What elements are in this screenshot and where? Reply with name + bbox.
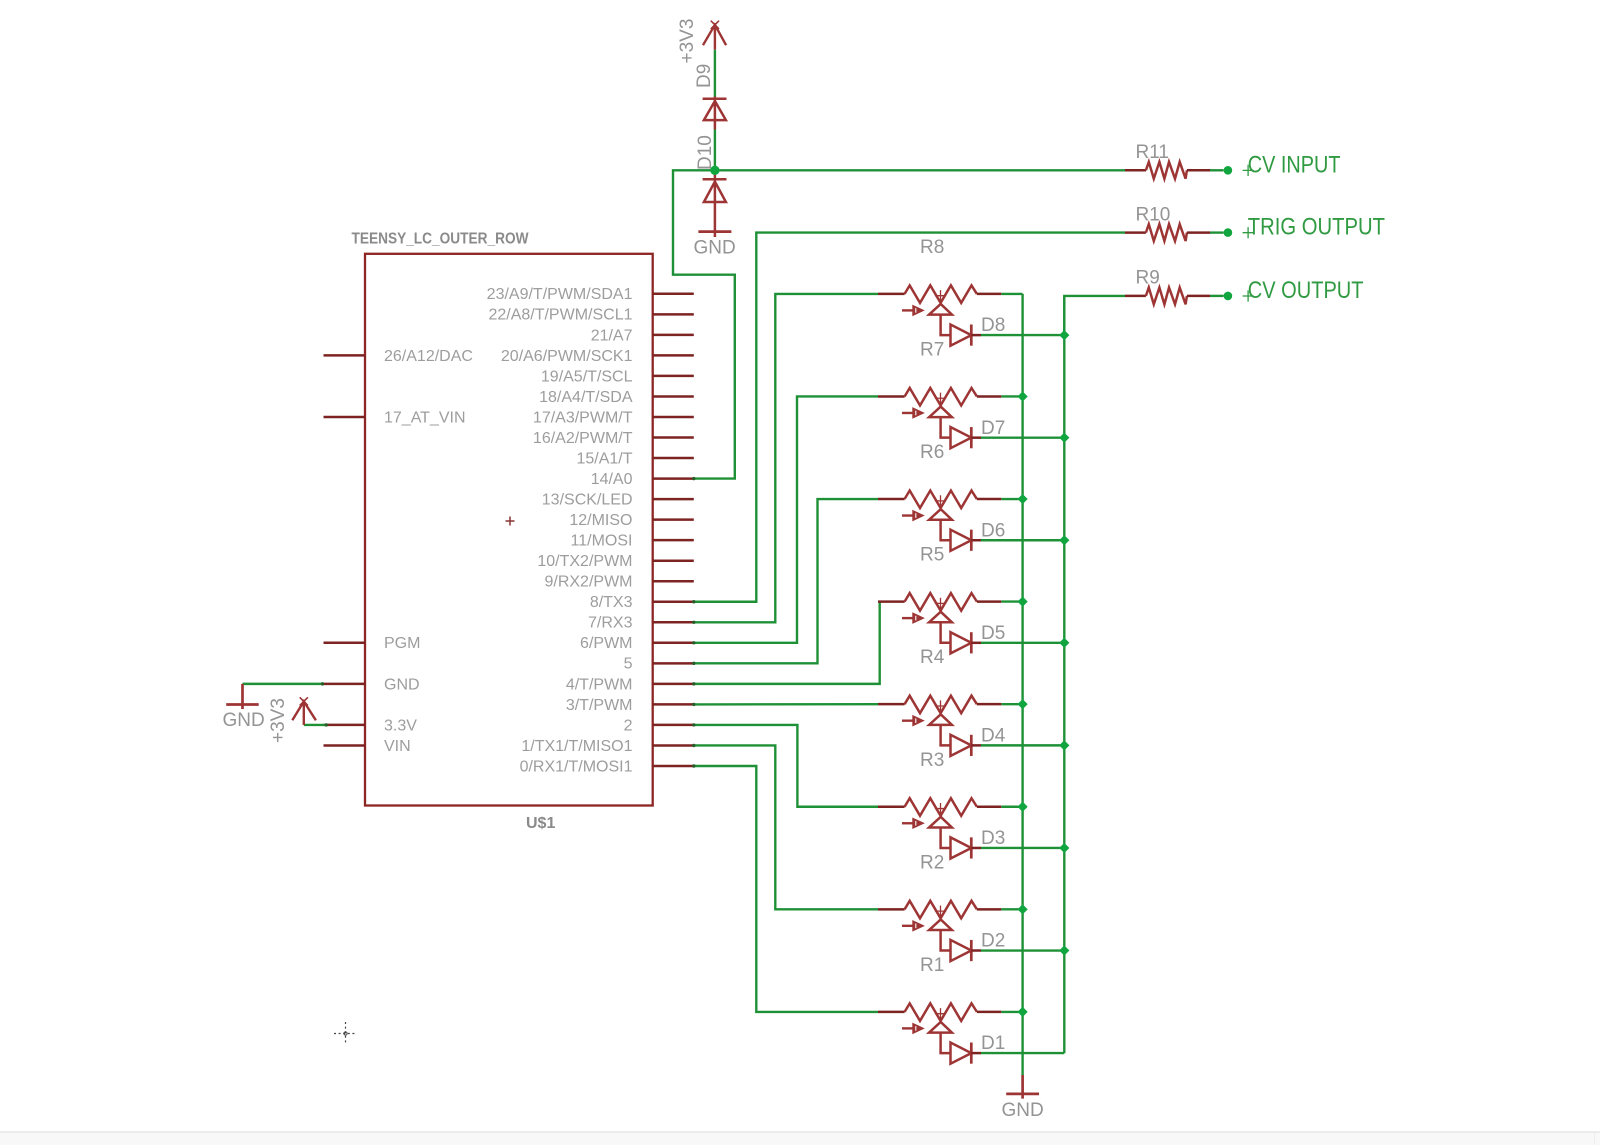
svg-text:18/A4/T/SDA: 18/A4/T/SDA	[539, 389, 633, 406]
wire pot R7 to right bus	[1001, 395, 1022, 397]
svg-text:D7: D7	[981, 418, 1005, 439]
wire diode D8 to output bus	[981, 334, 1064, 336]
svg-text:D8: D8	[981, 315, 1005, 336]
pin label 2	[624, 717, 633, 734]
diode label D10	[695, 135, 716, 170]
junction output bus D4	[1059, 740, 1069, 750]
pin 21/A7 stub	[653, 334, 694, 337]
wire +3V3 to D9	[714, 50, 716, 97]
wire pot-right bus to GND	[1021, 294, 1023, 1075]
pin 14/A0 stub	[653, 477, 694, 480]
diode label D9	[694, 64, 715, 88]
resistor label R9	[1136, 268, 1160, 289]
potentiometer label R2	[920, 852, 944, 873]
svg-text:D2: D2	[981, 931, 1005, 952]
wire node A to 14/A0 (jog)	[673, 170, 735, 478]
+3V3 label (top, rotated)	[677, 19, 698, 64]
junction output bus D5	[1059, 638, 1069, 648]
svg-text:R10: R10	[1136, 204, 1171, 225]
svg-text:TRIG OUTPUT: TRIG OUTPUT	[1248, 214, 1385, 241]
ground label GND (left)	[223, 710, 265, 731]
diode D1	[951, 1042, 982, 1063]
svg-text:U$1: U$1	[526, 815, 555, 832]
pin 26/A12/DAC stub (left)	[324, 354, 366, 357]
svg-text:D9: D9	[694, 64, 715, 88]
IC U$1 TEENSY_LC_OUTER_ROW box	[365, 254, 653, 806]
potentiometer label R1	[920, 955, 944, 976]
svg-text:TEENSY_LC_OUTER_ROW: TEENSY_LC_OUTER_ROW	[352, 231, 530, 248]
IC origin cross	[506, 517, 515, 526]
svg-text:6/PWM: 6/PWM	[580, 635, 632, 652]
svg-text:13/SCK/LED: 13/SCK/LED	[542, 492, 633, 509]
pin 3.3V stub (left)	[324, 724, 366, 727]
svg-text:R5: R5	[920, 545, 944, 566]
junction pot bus row R3	[1018, 802, 1028, 812]
wire pot R2 to right bus	[1001, 908, 1022, 910]
diode D2	[951, 940, 982, 961]
svg-text:D5: D5	[981, 623, 1005, 644]
pin 1/TX1/T/MISO1 stub	[653, 744, 694, 747]
pin 22/A8/T/PWM/SCL1 stub	[653, 313, 694, 316]
svg-text:9/RX2/PWM: 9/RX2/PWM	[544, 574, 632, 591]
diode D10	[703, 172, 727, 237]
wire pin 1/TX1/T/MISO1 to pot R2	[694, 745, 878, 909]
pin label 7/RX3	[588, 615, 633, 632]
svg-text:+3V3: +3V3	[677, 19, 698, 64]
resistor R9	[1125, 288, 1210, 305]
terminal dot CV INPUT	[1224, 166, 1233, 175]
wire pot R8 to right bus	[1001, 293, 1022, 295]
junction output bus D6	[1059, 535, 1069, 545]
ground label GND (bottom)	[1002, 1100, 1044, 1121]
svg-text:R6: R6	[920, 442, 944, 463]
pin label 6/PWM	[580, 635, 632, 652]
svg-text:R11: R11	[1136, 142, 1169, 163]
svg-text:8/TX3: 8/TX3	[590, 594, 633, 611]
svg-text:D10: D10	[695, 135, 716, 170]
pin label 3/T/PWM	[566, 697, 633, 714]
pin GND stub (left)	[324, 683, 366, 686]
wire pot R3 to right bus	[1001, 806, 1022, 808]
wire pin 6/PWM to pot R7	[694, 396, 878, 642]
wire node A to R11	[715, 169, 1146, 171]
IC name U$1	[526, 815, 555, 832]
svg-text:R3: R3	[920, 750, 944, 771]
pin 17_AT_VIN stub (left)	[324, 416, 366, 419]
svg-text:CV OUTPUT: CV OUTPUT	[1248, 277, 1364, 304]
diode D6	[951, 530, 982, 551]
pin 17/A3/PWM/T stub	[653, 416, 694, 419]
diode label D7	[981, 418, 1005, 439]
pin label 21/A7	[591, 327, 633, 344]
diode label D3	[981, 828, 1005, 849]
pin label 17_AT_VIN	[384, 409, 466, 426]
pin 20/A6/PWM/SCK1 stub	[653, 354, 694, 357]
+3V3 label (left, rotated)	[268, 698, 289, 743]
potentiometer R8	[878, 285, 1001, 335]
svg-text:15/A1/T: 15/A1/T	[576, 450, 632, 467]
wire pot R1 to right bus	[1001, 1011, 1022, 1013]
svg-text:17/A3/PWM/T: 17/A3/PWM/T	[533, 409, 633, 426]
potentiometer R7	[878, 388, 1001, 438]
junction pot bus row R5	[1018, 597, 1028, 607]
potentiometer label R5	[920, 545, 944, 566]
svg-text:12/MISO: 12/MISO	[569, 512, 632, 529]
diode label D2	[981, 931, 1005, 952]
junction pot bus row R7	[1018, 391, 1028, 401]
junction pot bus row R2	[1018, 904, 1028, 914]
pin 18/A4/T/SDA stub	[653, 395, 694, 398]
svg-text:7/RX3: 7/RX3	[588, 615, 633, 632]
pin 23/A9/T/PWM/SDA1 stub	[653, 293, 694, 296]
svg-text:R4: R4	[920, 647, 945, 668]
diode label D5	[981, 623, 1005, 644]
wire pot R4 to right bus	[1001, 703, 1022, 705]
pin label 13/SCK/LED	[542, 492, 633, 509]
pin 9/RX2/PWM stub	[653, 580, 694, 583]
svg-text:PGM: PGM	[384, 635, 420, 652]
pin label 4/T/PWM	[566, 676, 633, 693]
svg-text:D6: D6	[981, 520, 1005, 541]
pin label 5	[624, 656, 633, 673]
net label CV INPUT	[1243, 151, 1341, 178]
pin 8/TX3 stub	[653, 601, 694, 604]
svg-text:0/RX1/T/MOSI1: 0/RX1/T/MOSI1	[520, 758, 633, 775]
pin label 11/MOSI	[571, 533, 633, 550]
svg-text:D3: D3	[981, 828, 1005, 849]
svg-text:+3V3: +3V3	[268, 698, 289, 743]
svg-text:GND: GND	[1002, 1100, 1044, 1121]
potentiometer label R3	[920, 750, 944, 771]
svg-text:4/T/PWM: 4/T/PWM	[566, 676, 633, 693]
pin label 10/TX2/PWM	[537, 553, 632, 570]
+3V3 supply symbol (left)	[292, 697, 316, 725]
potentiometer R6	[878, 491, 1001, 541]
svg-text:26/A12/DAC: 26/A12/DAC	[384, 348, 473, 365]
pin 16/A2/PWM/T stub	[653, 436, 694, 439]
svg-text:10/TX2/PWM: 10/TX2/PWM	[537, 553, 632, 570]
terminal dot TRIG OUTPUT	[1224, 228, 1233, 237]
wire diode D6 to output bus	[981, 539, 1064, 541]
junction pot bus row R1	[1018, 1007, 1028, 1017]
wire diode D5 to output bus	[981, 642, 1064, 644]
diode D4	[951, 735, 982, 756]
ground symbol (top)	[698, 230, 731, 233]
wire 3.3V pin to +3V3	[304, 724, 327, 726]
svg-text:D4: D4	[981, 725, 1006, 746]
svg-text:3.3V: 3.3V	[384, 717, 417, 734]
pin 6/PWM stub	[653, 642, 694, 645]
potentiometer R4	[878, 696, 1001, 746]
pin label 9/RX2/PWM	[544, 574, 632, 591]
svg-text:21/A7: 21/A7	[591, 327, 633, 344]
wire diode D7 to output bus	[981, 436, 1064, 438]
pin 12/MISO stub	[653, 518, 694, 521]
svg-text:VIN: VIN	[384, 738, 411, 755]
wire diode D3 to output bus	[981, 847, 1064, 849]
svg-text:23/A9/T/PWM/SDA1: 23/A9/T/PWM/SDA1	[487, 286, 633, 303]
pin label 8/TX3	[590, 594, 633, 611]
pin connection dots	[321, 477, 696, 768]
ground label GND (top)	[694, 238, 736, 259]
junction pot bus row R6	[1018, 494, 1028, 504]
crosshair mark	[334, 1022, 357, 1045]
resistor R10	[1125, 224, 1210, 241]
junction pot bus row R4	[1018, 699, 1028, 709]
pin label 17/A3/PWM/T	[533, 409, 633, 426]
wire diode cathode bus	[1063, 296, 1065, 1053]
potentiometer label R6	[920, 442, 944, 463]
potentiometer R2	[878, 901, 1001, 951]
svg-text:CV INPUT: CV INPUT	[1248, 151, 1341, 178]
junction node A	[710, 166, 719, 175]
svg-text:R9: R9	[1136, 268, 1160, 289]
pin 7/RX3 stub	[653, 621, 694, 624]
svg-text:R8: R8	[920, 237, 944, 258]
junction output bus D2	[1059, 945, 1069, 955]
pin 11/MOSI stub	[653, 539, 694, 542]
bottom edge strip	[0, 1132, 1600, 1145]
pin 2 stub	[653, 724, 694, 727]
diode D9	[703, 97, 727, 130]
pin 0/RX1/T/MOSI1 stub	[653, 765, 694, 768]
junction output bus D3	[1059, 843, 1069, 853]
svg-text:GND: GND	[384, 676, 420, 693]
potentiometer R3	[878, 798, 1001, 848]
ground symbol (left)	[226, 684, 259, 709]
net label TRIG OUTPUT	[1243, 214, 1386, 241]
pin label 0/RX1/T/MOSI1	[520, 758, 633, 775]
wire pin 4/T/PWM to pot R5	[694, 602, 880, 684]
wire 8/TX3 to R10	[694, 233, 1125, 602]
svg-text:R1: R1	[920, 955, 944, 976]
svg-text:17_AT_VIN: 17_AT_VIN	[384, 409, 466, 426]
diode D7	[951, 427, 982, 448]
pin 13/SCK/LED stub	[653, 498, 694, 501]
svg-text:16/A2/PWM/T: 16/A2/PWM/T	[533, 430, 633, 447]
pin label 22/A8/T/PWM/SCL1	[488, 307, 632, 324]
wire pin 0/RX1/T/MOSI1 to pot R1	[694, 766, 878, 1012]
svg-text:19/A5/T/SCL: 19/A5/T/SCL	[541, 368, 633, 385]
net label CV OUTPUT	[1243, 277, 1364, 304]
svg-text:1/TX1/T/MISO1: 1/TX1/T/MISO1	[521, 738, 632, 755]
diode D8	[951, 325, 982, 346]
svg-text:22/A8/T/PWM/SCL1: 22/A8/T/PWM/SCL1	[488, 307, 632, 324]
pin 4/T/PWM stub	[653, 683, 694, 686]
pin label PGM	[384, 635, 420, 652]
wire R10 to TRIG OUTPUT terminal	[1210, 231, 1224, 233]
potentiometer label R4	[920, 647, 945, 668]
pin label 12/MISO	[569, 512, 632, 529]
wire GND pin to ground	[243, 683, 323, 685]
pin 10/TX2/PWM stub	[653, 559, 694, 562]
svg-text:D1: D1	[981, 1033, 1005, 1054]
wire pin 7/RX3 to pot R8	[694, 294, 878, 622]
pin label 1/TX1/T/MISO1	[521, 738, 632, 755]
pin label 3.3V	[384, 717, 417, 734]
+3V3 supply symbol (top)	[703, 21, 726, 50]
pin 19/A5/T/SCL stub	[653, 375, 694, 378]
pin 3/T/PWM stub	[653, 703, 694, 706]
wire R11 to CV INPUT terminal	[1210, 169, 1224, 171]
svg-text:R7: R7	[920, 339, 944, 360]
pin PGM stub (left)	[324, 642, 366, 645]
svg-text:R2: R2	[920, 852, 944, 873]
svg-text:14/A0: 14/A0	[591, 471, 633, 488]
pin label GND	[384, 676, 420, 693]
pin 5 stub	[653, 662, 694, 665]
junction output bus D8	[1059, 330, 1069, 340]
pin label 23/A9/T/PWM/SDA1	[487, 286, 633, 303]
wire pot R6 to right bus	[1001, 498, 1022, 500]
wire R9 to CV OUTPUT terminal	[1210, 295, 1224, 297]
pin label 26/A12/DAC	[384, 348, 473, 365]
pin 15/A1/T stub	[653, 457, 694, 460]
wire diode D1 to output bus	[981, 1052, 1064, 1054]
diode label D8	[981, 315, 1005, 336]
diode label D4	[981, 725, 1006, 746]
diode label D6	[981, 520, 1005, 541]
svg-text:2: 2	[624, 717, 633, 734]
svg-text:GND: GND	[694, 238, 736, 259]
resistor label R11	[1136, 142, 1169, 163]
pin VIN stub (left)	[324, 744, 366, 747]
svg-text:5: 5	[624, 656, 633, 673]
ground symbol (bottom)	[1006, 1075, 1039, 1099]
diode D5	[951, 632, 982, 653]
pin label 14/A0	[591, 471, 633, 488]
terminal dot CV OUTPUT	[1224, 292, 1233, 301]
wire D9 to node A	[714, 130, 716, 169]
svg-text:3/T/PWM: 3/T/PWM	[566, 697, 633, 714]
IC title TEENSY_LC_OUTER_ROW	[352, 231, 530, 248]
wire pin 2 to pot R3	[694, 725, 878, 807]
pin label 20/A6/PWM/SCK1	[501, 348, 633, 365]
resistor R11	[1125, 162, 1210, 179]
diode D3	[951, 837, 982, 858]
svg-text:20/A6/PWM/SCK1: 20/A6/PWM/SCK1	[501, 348, 633, 365]
potentiometer label R8	[920, 237, 944, 258]
pin label 19/A5/T/SCL	[541, 368, 633, 385]
wire diode bus to R9	[1064, 296, 1125, 335]
pin label 16/A2/PWM/T	[533, 430, 633, 447]
svg-text:11/MOSI: 11/MOSI	[571, 533, 633, 550]
wire pin 3/T/PWM to pot R4	[694, 703, 878, 706]
potentiometer R1	[878, 1003, 1001, 1053]
wire diode D2 to output bus	[981, 949, 1064, 951]
potentiometer R5	[878, 593, 1001, 643]
wire pot R5 to right bus	[1001, 600, 1022, 602]
pin label 18/A4/T/SDA	[539, 389, 633, 406]
diode label D1	[981, 1033, 1005, 1054]
junction output bus D7	[1059, 433, 1069, 443]
wire pin 5 to pot R6	[694, 499, 878, 663]
pin label 15/A1/T	[576, 450, 632, 467]
potentiometer label R7	[920, 339, 944, 360]
resistor label R10	[1136, 204, 1171, 225]
wire diode D4 to output bus	[981, 744, 1064, 746]
pin label VIN	[384, 738, 411, 755]
svg-text:GND: GND	[223, 710, 265, 731]
